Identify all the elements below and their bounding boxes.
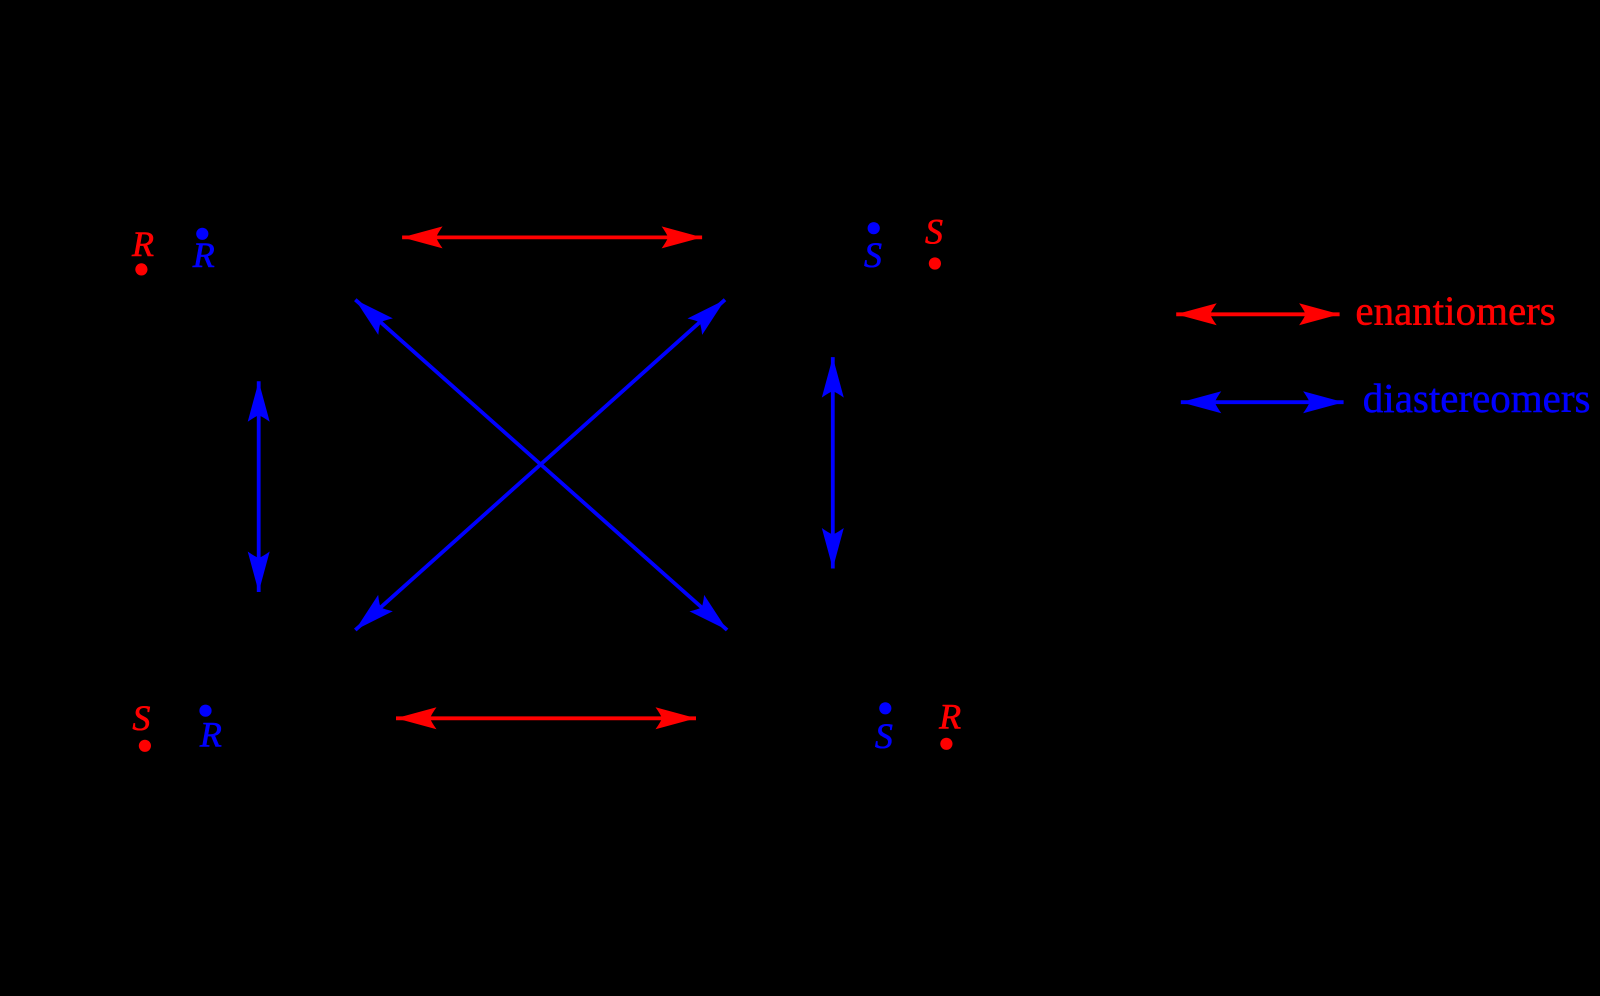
right blue vertical double arrow <box>822 357 844 568</box>
dot red top-right <box>929 257 941 269</box>
blue diagonal double arrow TL-BR <box>348 291 734 638</box>
legend blue double arrow <box>1181 391 1344 413</box>
svg-text:S: S <box>875 716 893 756</box>
dot blue top-right <box>868 222 880 234</box>
dot blue bottom-right <box>879 702 891 714</box>
dot red top-left <box>135 263 147 275</box>
svg-text:R: R <box>131 224 154 264</box>
legend red double arrow <box>1176 303 1339 325</box>
top red double arrow (enantiomers RR-SS) <box>402 226 702 248</box>
svg-text:S: S <box>864 235 882 275</box>
blue diagonal double arrow BL-TR <box>348 291 732 638</box>
svg-text:enantiomers: enantiomers <box>1355 288 1555 334</box>
dot blue top-left <box>196 228 208 240</box>
dot blue bottom-left <box>199 705 211 717</box>
dot red bottom-right <box>940 738 952 750</box>
left blue vertical double arrow <box>248 381 270 592</box>
svg-text:R: R <box>192 235 215 275</box>
svg-text:R: R <box>199 715 222 755</box>
dot red bottom-left <box>139 740 151 752</box>
svg-text:diastereomers: diastereomers <box>1363 375 1591 421</box>
svg-text:S: S <box>132 698 150 738</box>
svg-text:R: R <box>938 697 961 737</box>
bottom red double arrow (enantiomers SR-RS) <box>396 707 696 729</box>
svg-text:S: S <box>925 211 943 251</box>
